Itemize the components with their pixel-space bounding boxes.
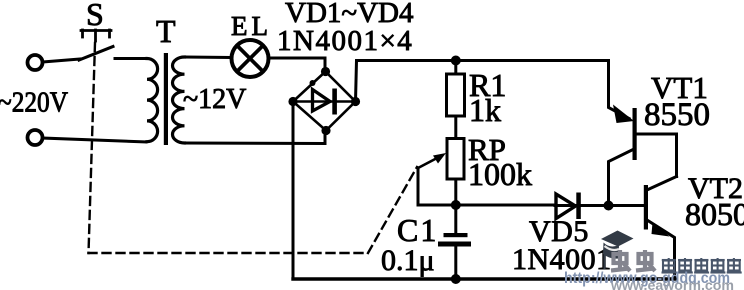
node dot bottom rail [451, 274, 461, 284]
svg-text:1k: 1k [469, 92, 501, 128]
node dot VD5/VT2 base/VT1 collector [604, 201, 614, 211]
svg-text:0.1μ: 0.1μ [381, 244, 435, 277]
svg-text:EL: EL [231, 11, 272, 41]
wire RP bottom [454, 179, 457, 205]
lamp EL [232, 40, 269, 77]
bridge inner diode symbol [297, 100, 351, 103]
svg-text:~12V: ~12V [183, 84, 246, 115]
resistor R1 [454, 61, 457, 75]
diode VD5 [556, 194, 576, 219]
transistor VT1 base bar [633, 108, 637, 160]
potentiometer RP [447, 139, 464, 180]
RP wiper arrow [417, 168, 420, 205]
watermark chongchong glyphs [611, 250, 655, 271]
bottom rail [293, 277, 675, 280]
svg-text:1N4001×4: 1N4001×4 [277, 25, 413, 57]
node dot top rail [451, 56, 461, 66]
wire [43, 138, 147, 142]
svg-text:C1: C1 [397, 212, 438, 248]
svg-text:100k: 100k [468, 156, 532, 192]
svg-text:S: S [86, 0, 104, 32]
wire bridge left node down to bottom rail [292, 102, 295, 280]
bridge node dots [288, 67, 360, 135]
VT1 collector wire [609, 150, 634, 206]
VT2 emitter arrowhead [652, 223, 670, 237]
VT2 emitter wire [648, 221, 675, 280]
node wire wiper/C1/VD5 [418, 204, 555, 207]
svg-text:~220V: ~220V [0, 87, 68, 119]
transistor VT2 base bar [644, 185, 648, 230]
transistor VT1 emitter wire [609, 61, 630, 119]
wire [43, 59, 81, 62]
wire secondary top to lamp [185, 56, 231, 60]
dashed linkage switch S to RP [89, 43, 418, 253]
switch S blade [79, 47, 113, 61]
wire secondary bottom to bridge bottom [185, 131, 326, 144]
transformer T primary winding [147, 59, 158, 142]
node dot [451, 200, 461, 210]
watermark graduation cap logo [601, 231, 634, 270]
switch S actuator symbol [81, 30, 111, 41]
VT1 base wire to VT2 collector [637, 134, 677, 177]
wire bridge right node up to top rail [356, 61, 609, 102]
terminal top AC input [28, 55, 43, 70]
VT1 emitter arrowhead [613, 105, 634, 124]
svg-text:8550: 8550 [644, 97, 710, 133]
wire lamp to bridge top [271, 58, 326, 70]
wire [115, 57, 147, 60]
svg-text:T: T [156, 13, 176, 49]
svg-text:www.eaworm.com: www.eaworm.com [610, 277, 734, 290]
transformer T secondary winding [173, 57, 185, 143]
wire [454, 116, 457, 139]
transformer core [164, 53, 168, 145]
watermark text dianzixiazaizhan [662, 258, 742, 274]
capacitor C1 [454, 205, 457, 233]
terminal bottom AC input [28, 130, 43, 145]
bridge rectifier VD1~VD4 diamond [293, 72, 356, 131]
VT2 base wire [609, 204, 644, 207]
svg-text:8050: 8050 [685, 196, 744, 232]
transistor VT2 collector wire [648, 177, 677, 190]
